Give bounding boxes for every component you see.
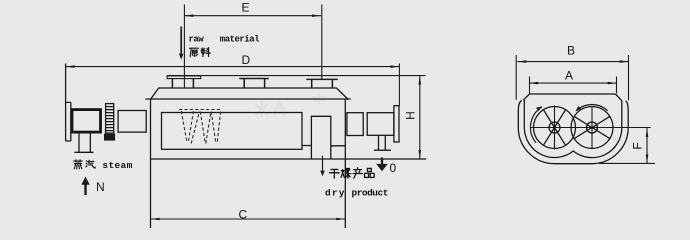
svg-text:material: material bbox=[220, 35, 260, 45]
rotor left hub bbox=[549, 122, 560, 133]
shell outer wall bbox=[518, 101, 628, 164]
right end plate bbox=[394, 106, 399, 142]
text 干燥产品 (dry product CN) bbox=[329, 169, 339, 178]
svg-text:A: A bbox=[565, 69, 573, 83]
rotor left rotation arrow bbox=[530, 107, 541, 143]
dimension A line bbox=[529, 82, 617, 85]
dryer body shell bbox=[150, 99, 152, 228]
shell inner wall bbox=[524, 100, 622, 158]
svg-text:D: D bbox=[242, 53, 251, 67]
svg-text:B: B bbox=[567, 44, 575, 58]
svg-text:H: H bbox=[404, 111, 418, 120]
top ports: long flange reference line bbox=[167, 75, 425, 77]
gear / coupling stack bbox=[106, 104, 114, 134]
left end plate and D extension bbox=[65, 64, 67, 142]
rotor right crosshair + centerline extension bbox=[569, 106, 651, 149]
shell chamfers bbox=[523, 94, 621, 101]
shell top plate bbox=[530, 93, 616, 95]
svg-text:0: 0 bbox=[390, 161, 397, 175]
rotor left circle bbox=[534, 107, 576, 149]
svg-text:product: product bbox=[352, 188, 388, 199]
inner panel bbox=[162, 113, 303, 150]
interior step lines bbox=[302, 145, 345, 147]
rotor right circle bbox=[571, 107, 613, 149]
right end box bbox=[367, 113, 394, 136]
gear black block bbox=[104, 134, 115, 141]
rotor right paddles bbox=[574, 116, 610, 138]
right end stand bbox=[374, 135, 391, 150]
rotor left paddles bbox=[543, 110, 565, 146]
motor stand bbox=[74, 133, 93, 152]
dryer product discharge arrow bbox=[320, 156, 325, 177]
dimension E line bbox=[184, 14, 321, 17]
right bearing block bbox=[347, 113, 363, 136]
motor bbox=[72, 110, 101, 133]
svg-text:E: E bbox=[242, 1, 250, 15]
cover trapezoid bbox=[151, 88, 349, 100]
svg-text:dry: dry bbox=[325, 188, 346, 199]
dimension A extensions bbox=[530, 77, 617, 94]
svg-text:C: C bbox=[239, 208, 248, 222]
svg-text:N: N bbox=[96, 180, 105, 194]
outlet arrow O (bold) bbox=[376, 158, 388, 172]
port 2 flange bbox=[239, 78, 269, 80]
dimension B line bbox=[517, 60, 628, 63]
port 3 flange bbox=[306, 78, 338, 80]
cover lip line bbox=[146, 98, 351, 100]
svg-text:steam: steam bbox=[102, 160, 132, 171]
watermark (faint) bbox=[255, 93, 326, 117]
bottom reference line bbox=[599, 162, 655, 164]
hidden paddle screw (dashed) bbox=[179, 110, 221, 144]
raw material feed arrow bbox=[179, 27, 184, 60]
svg-text:F: F bbox=[631, 142, 645, 149]
dimension C line bbox=[151, 218, 346, 221]
svg-text:raw: raw bbox=[189, 35, 205, 45]
port 1 feed flange bbox=[167, 76, 201, 79]
text 原料 (raw material CN) bbox=[190, 48, 199, 56]
dimension F line bbox=[646, 128, 649, 163]
dimension H line bbox=[419, 76, 422, 159]
rotor left crosshair bbox=[531, 106, 578, 150]
text 蒸汽 (steam CN) bbox=[74, 160, 82, 169]
rotor right rotation arrow bbox=[576, 105, 607, 111]
dimension D extension right bbox=[398, 64, 400, 106]
dimension D line bbox=[66, 65, 400, 68]
discharge chute bbox=[311, 116, 330, 159]
dimension B extensions bbox=[516, 55, 628, 100]
steam inlet arrow N bbox=[81, 177, 89, 195]
shaft sleeve bbox=[118, 111, 146, 133]
rotor right hub bbox=[587, 122, 598, 133]
dimension E extension left bbox=[183, 5, 185, 89]
dimension E extension right bbox=[321, 5, 323, 80]
